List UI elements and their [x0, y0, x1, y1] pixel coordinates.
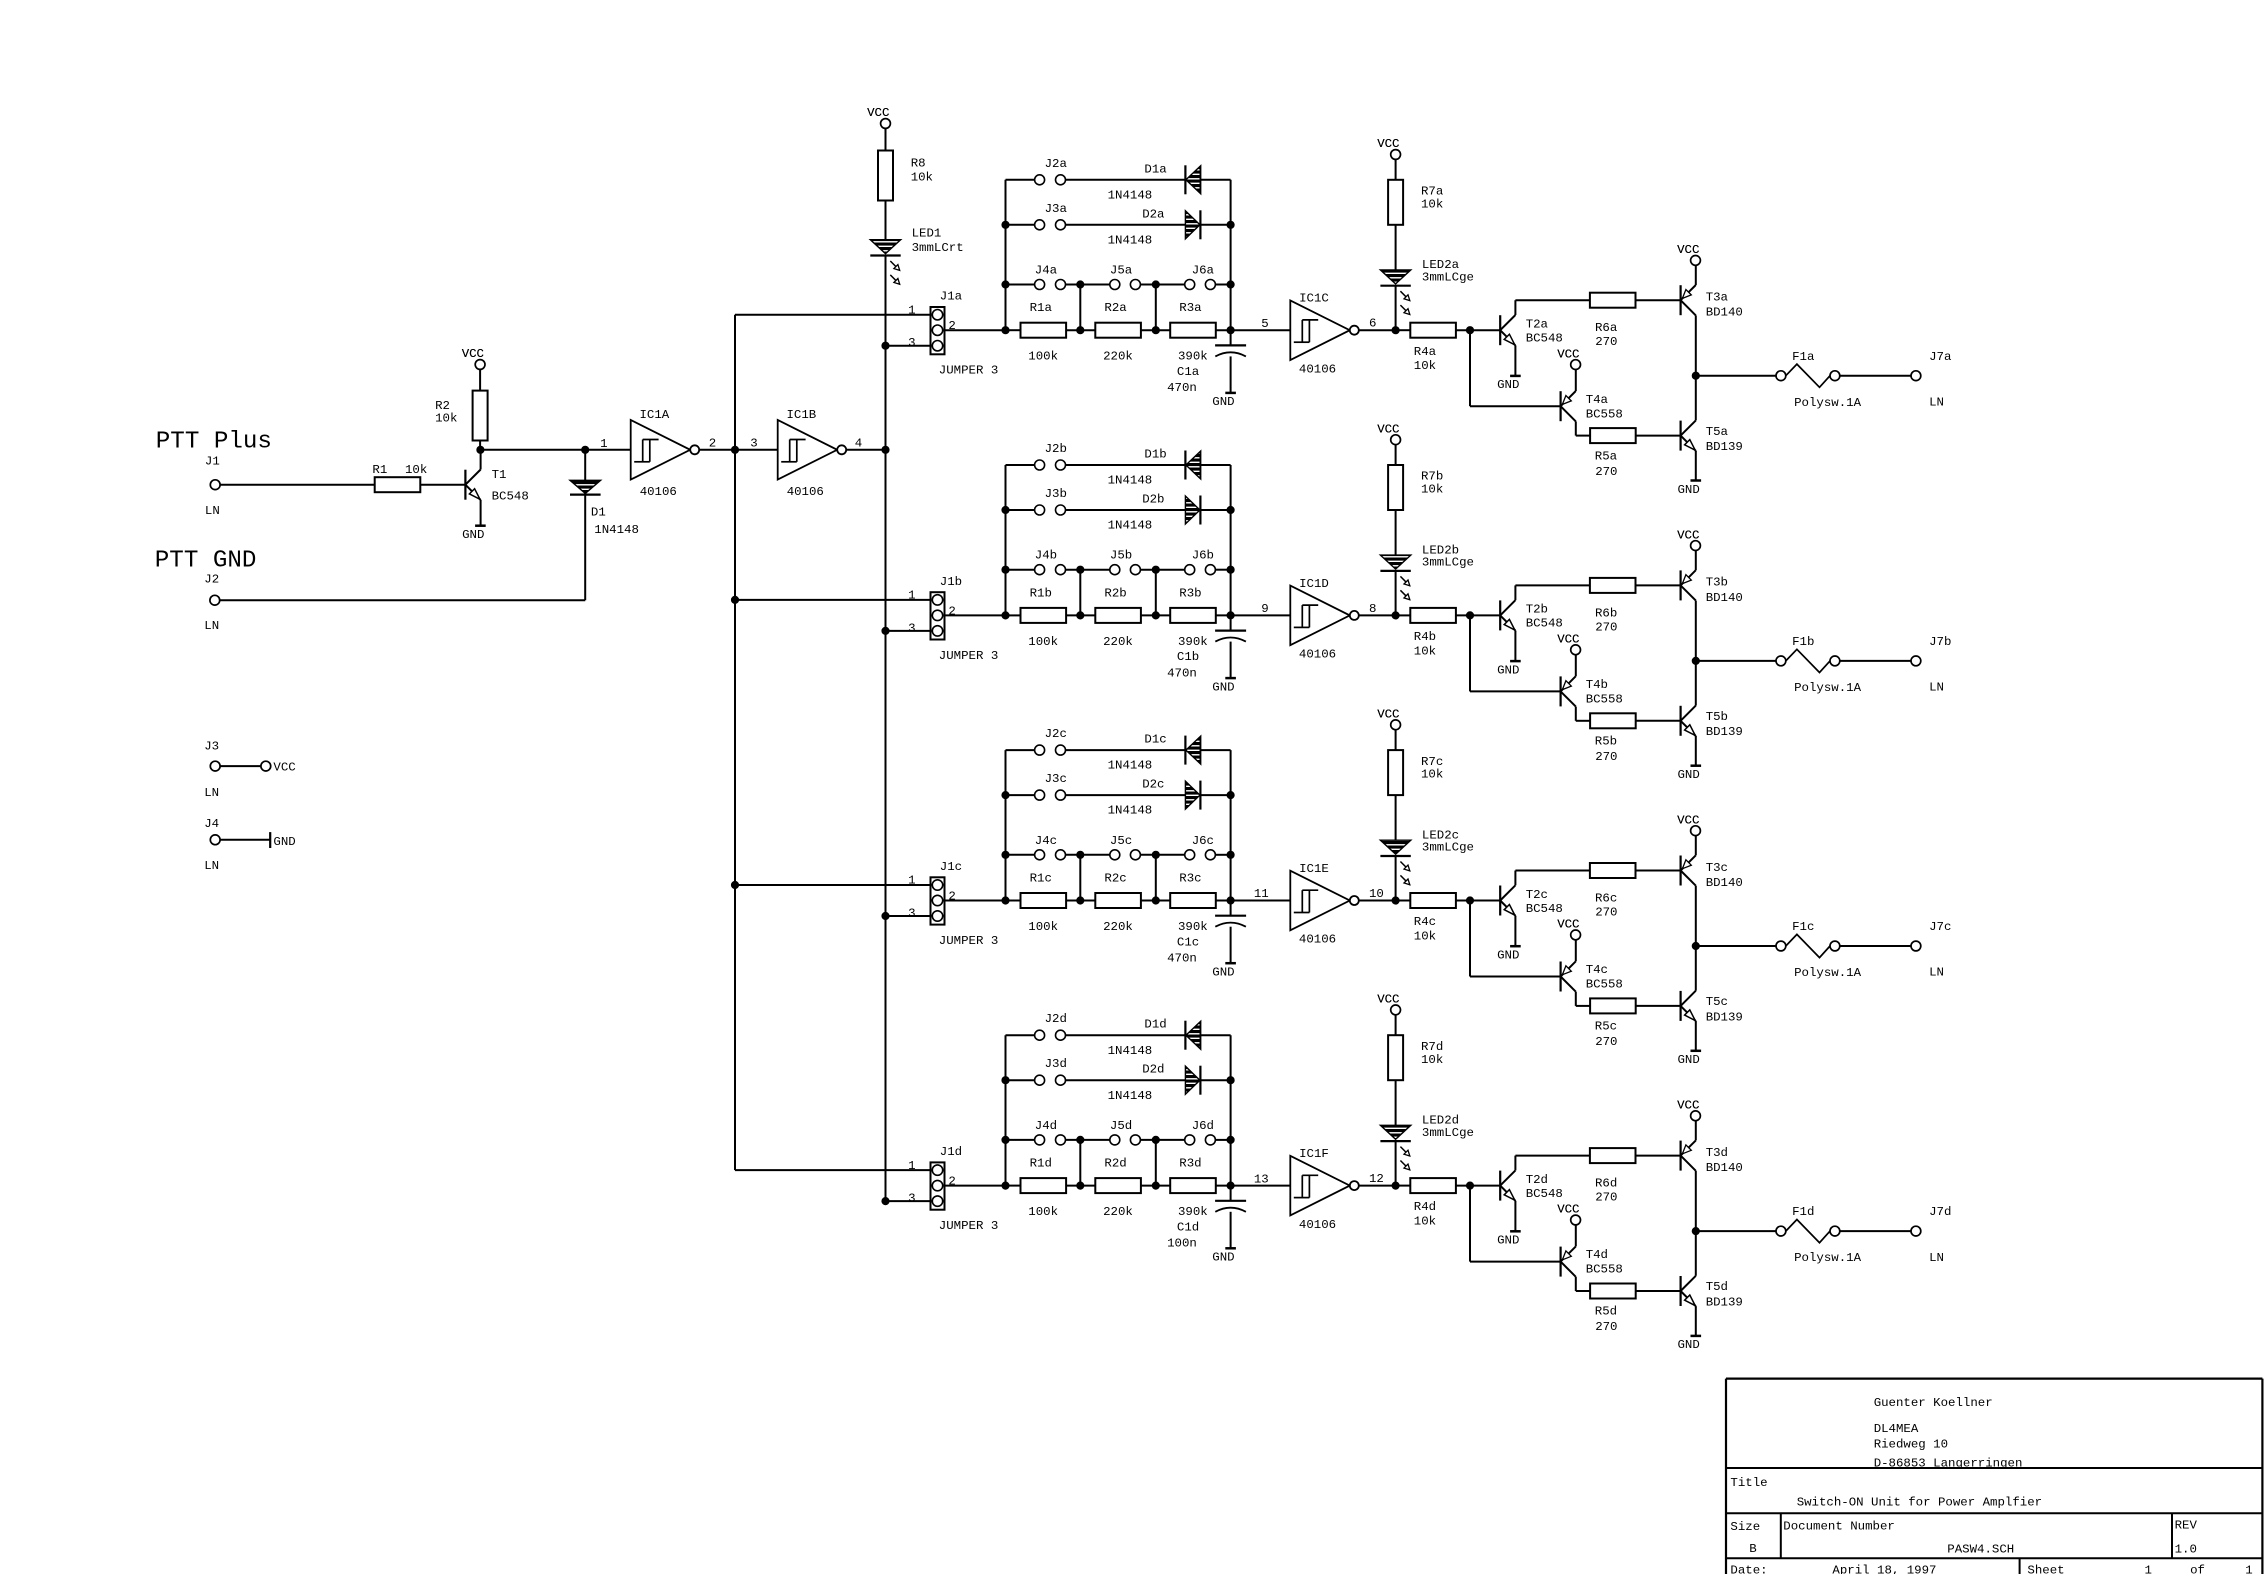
jumper J4a: [1006, 284, 1035, 286]
svg-text:D1d: D1d: [1144, 1018, 1166, 1032]
svg-text:R3b: R3b: [1179, 586, 1201, 600]
wire: [1695, 1021, 1697, 1051]
resistor R3b: [1170, 608, 1216, 623]
wire node 1: [480, 449, 631, 451]
wire: [1395, 1015, 1397, 1035]
jumper header J1b: [931, 592, 945, 639]
junction: [1077, 327, 1084, 334]
svg-text:J5c: J5c: [1110, 834, 1132, 848]
svg-text:B: B: [1749, 1542, 1756, 1556]
svg-text:10k: 10k: [1414, 1215, 1436, 1229]
svg-text:R6c: R6c: [1595, 892, 1617, 906]
junction: [1693, 1228, 1700, 1235]
svg-text:J6c: J6c: [1192, 834, 1214, 848]
svg-text:T2b: T2b: [1526, 603, 1548, 617]
connector J1: [210, 480, 220, 490]
jumper J3c: [1006, 794, 1035, 796]
jumper J3b: [1006, 509, 1035, 511]
svg-text:R7c: R7c: [1421, 755, 1443, 769]
transistor T2b: [1499, 600, 1501, 630]
capacitor C1d: [1215, 1200, 1246, 1202]
svg-text:1N4148: 1N4148: [594, 523, 639, 537]
svg-text:13: 13: [1254, 1172, 1269, 1186]
wire: [1635, 1155, 1680, 1157]
power VCC: [1391, 720, 1401, 730]
resistor R6b: [1590, 578, 1636, 593]
wire: [886, 345, 931, 347]
svg-text:J6a: J6a: [1192, 264, 1215, 278]
resistor R2: [473, 391, 488, 441]
jumper J4d: [1006, 1139, 1035, 1141]
svg-text:220k: 220k: [1103, 1205, 1133, 1219]
wire: [1066, 900, 1095, 902]
resistor R3c: [1170, 893, 1216, 908]
wire: [220, 599, 585, 601]
svg-text:40106: 40106: [787, 485, 824, 499]
wire: [1200, 224, 1230, 226]
wire: [1575, 940, 1577, 962]
junction: [1153, 897, 1160, 904]
svg-text:BD139: BD139: [1706, 725, 1743, 739]
svg-text:270: 270: [1595, 1320, 1617, 1334]
wire: [1140, 569, 1184, 571]
svg-text:F1c: F1c: [1792, 920, 1814, 934]
wire: [1470, 405, 1561, 407]
svg-text:R1b: R1b: [1030, 586, 1052, 600]
wire: [1005, 465, 1007, 615]
svg-text:100k: 100k: [1028, 1205, 1058, 1219]
svg-text:VCC: VCC: [1377, 993, 1399, 1007]
svg-text:J2: J2: [204, 573, 219, 587]
svg-text:J4c: J4c: [1035, 834, 1057, 848]
wire: [1079, 570, 1081, 616]
svg-text:GND: GND: [1497, 378, 1519, 392]
svg-text:BC558: BC558: [1586, 978, 1623, 992]
junction: [1077, 612, 1084, 619]
svg-text:R4d: R4d: [1414, 1200, 1436, 1214]
svg-text:BC558: BC558: [1586, 407, 1623, 421]
ground: [1691, 1050, 1702, 1053]
ground: [1510, 1230, 1521, 1233]
wire: [1216, 900, 1291, 902]
svg-text:BD140: BD140: [1706, 1161, 1743, 1175]
resistor R2d: [1095, 1178, 1141, 1193]
wire: [1575, 1225, 1577, 1247]
svg-text:C1b: C1b: [1177, 650, 1199, 664]
junction: [732, 882, 739, 889]
svg-text:GND: GND: [1678, 768, 1700, 782]
jumper J4c: [1006, 854, 1035, 856]
svg-text:3mmLCge: 3mmLCge: [1422, 270, 1474, 284]
svg-text:GND: GND: [1497, 663, 1519, 677]
junction: [477, 447, 484, 454]
resistor R6d: [1590, 1148, 1636, 1163]
svg-text:VCC: VCC: [1557, 1203, 1579, 1217]
power VCC: [261, 761, 271, 771]
wire: [1215, 854, 1230, 856]
ground: [1691, 479, 1702, 482]
svg-text:220k: 220k: [1103, 350, 1133, 364]
resistor R1b: [1021, 608, 1067, 623]
wire: [1455, 900, 1500, 902]
fuse F1b: [1776, 656, 1786, 666]
junction: [1077, 1137, 1084, 1144]
svg-text:Sheet: Sheet: [2027, 1564, 2064, 1574]
svg-text:100k: 100k: [1028, 350, 1058, 364]
wire: [1695, 315, 1697, 375]
wire: [1395, 159, 1397, 179]
svg-text:VCC: VCC: [1677, 528, 1699, 542]
svg-text:BC548: BC548: [1526, 617, 1563, 631]
svg-text:REV: REV: [2175, 1519, 2198, 1533]
wire: [1155, 855, 1157, 901]
wire: [1635, 1290, 1680, 1292]
wire: [846, 449, 885, 451]
wire: [1395, 286, 1397, 331]
wire: [1140, 284, 1184, 286]
svg-text:40106: 40106: [640, 485, 677, 499]
wire: [886, 1200, 931, 1202]
wire: [1215, 1139, 1230, 1141]
wire: [1635, 435, 1680, 437]
svg-text:220k: 220k: [1103, 920, 1133, 934]
wire: [1066, 224, 1186, 226]
svg-text:J7c: J7c: [1929, 920, 1951, 934]
svg-text:10k: 10k: [1414, 929, 1436, 943]
junction: [582, 447, 589, 454]
wire: [1635, 299, 1680, 301]
wire: [1066, 1079, 1186, 1081]
wire: [1576, 435, 1591, 437]
junction: [1077, 566, 1084, 573]
wire: [1455, 614, 1500, 616]
wire: [1230, 180, 1232, 346]
resistor R7a: [1388, 180, 1403, 225]
svg-text:J2c: J2c: [1045, 727, 1067, 741]
wire: [1066, 569, 1110, 571]
wire: [1006, 614, 1021, 616]
wire: [480, 450, 482, 470]
wire: [220, 839, 270, 841]
jumper J5c: [1110, 850, 1120, 860]
svg-text:J4b: J4b: [1035, 549, 1057, 563]
jumper J5b: [1110, 565, 1120, 575]
svg-text:Riedweg 10: Riedweg 10: [1874, 1437, 1948, 1451]
svg-text:1: 1: [2145, 1564, 2152, 1574]
svg-text:3mmLCge: 3mmLCge: [1422, 841, 1474, 855]
svg-text:1.0: 1.0: [2175, 1542, 2197, 1556]
svg-text:R4b: R4b: [1414, 630, 1436, 644]
junction: [1693, 943, 1700, 950]
inverter IC1E: [1290, 871, 1350, 931]
svg-text:Polysw.1A: Polysw.1A: [1794, 966, 1861, 980]
wire: [479, 369, 481, 390]
svg-text:Size: Size: [1730, 1520, 1760, 1534]
wire: [1514, 871, 1516, 886]
junction: [1467, 1182, 1474, 1189]
junction: [1227, 1077, 1234, 1084]
svg-text:BC548: BC548: [1526, 1187, 1563, 1201]
jumper J6d: [1185, 1135, 1195, 1145]
wire: [1695, 946, 1697, 991]
junction: [1002, 1077, 1009, 1084]
resistor R2c: [1095, 893, 1141, 908]
svg-text:IC1D: IC1D: [1299, 577, 1329, 591]
svg-text:10k: 10k: [1421, 1053, 1443, 1067]
resistor R5c: [1590, 998, 1636, 1013]
svg-text:J4: J4: [204, 817, 219, 831]
diode D1d: [1184, 1021, 1186, 1050]
svg-text:of: of: [2190, 1564, 2205, 1574]
LED LED1: [870, 240, 900, 254]
svg-text:Document Number: Document Number: [1783, 1519, 1895, 1533]
wire: [1216, 329, 1291, 331]
ground: [1225, 1247, 1236, 1250]
svg-text:12: 12: [1369, 1172, 1384, 1186]
wire: [885, 128, 887, 150]
connector J7b: [1911, 656, 1921, 666]
svg-text:VCC: VCC: [1377, 708, 1399, 722]
junction: [1392, 327, 1399, 334]
svg-text:11: 11: [1254, 887, 1269, 901]
wire bus2: [885, 256, 887, 1202]
svg-text:3: 3: [908, 621, 915, 635]
connector J2: [210, 595, 220, 605]
power VCC: [881, 119, 891, 129]
svg-text:T3a: T3a: [1706, 291, 1729, 305]
junction: [882, 342, 889, 349]
jumper J2b: [1006, 464, 1035, 466]
svg-text:JUMPER 3: JUMPER 3: [939, 364, 999, 378]
svg-text:J7b: J7b: [1929, 635, 1951, 649]
wire: [1395, 445, 1397, 465]
power VCC: [1391, 1005, 1401, 1015]
svg-text:F1d: F1d: [1792, 1205, 1814, 1219]
power VCC: [1571, 360, 1581, 370]
ground: [269, 832, 271, 848]
connector J7d: [1911, 1226, 1921, 1236]
svg-text:T3b: T3b: [1706, 576, 1728, 590]
transistor T4b: [1559, 676, 1561, 706]
svg-text:1: 1: [908, 1159, 915, 1173]
wire: [1201, 179, 1231, 181]
svg-text:D2c: D2c: [1142, 778, 1164, 792]
jumper J6c: [1185, 850, 1195, 860]
transistor T2c: [1499, 886, 1501, 916]
wire: [886, 915, 931, 917]
svg-text:BC548: BC548: [1526, 332, 1563, 346]
svg-text:J2d: J2d: [1045, 1012, 1067, 1026]
svg-text:DL4MEA: DL4MEA: [1874, 1422, 1919, 1436]
wire: [1066, 1139, 1110, 1141]
svg-text:JUMPER 3: JUMPER 3: [939, 934, 999, 948]
svg-text:Date:: Date:: [1730, 1564, 1767, 1574]
jumper J2a: [1006, 179, 1035, 181]
junction: [1077, 897, 1084, 904]
svg-text:R5d: R5d: [1595, 1305, 1617, 1319]
svg-text:J6b: J6b: [1192, 549, 1214, 563]
svg-text:PTT Plus: PTT Plus: [156, 429, 272, 456]
svg-text:100k: 100k: [1028, 920, 1058, 934]
svg-text:Title: Title: [1730, 1476, 1767, 1490]
jumper J6b: [1185, 565, 1195, 575]
LED LED2c: [1380, 840, 1410, 854]
wire: [1230, 1035, 1232, 1201]
wire: [420, 484, 465, 486]
wire: [1230, 927, 1232, 964]
svg-text:R2c: R2c: [1104, 872, 1126, 886]
wire: [1395, 225, 1397, 270]
wire bus1: [734, 315, 736, 1170]
svg-text:J4d: J4d: [1035, 1119, 1057, 1133]
inverter IC1A: [631, 420, 691, 480]
wire: [1359, 1185, 1396, 1187]
svg-text:J7d: J7d: [1929, 1205, 1951, 1219]
svg-text:BD139: BD139: [1706, 1295, 1743, 1309]
svg-text:F1a: F1a: [1792, 350, 1815, 364]
wire: [1141, 1185, 1170, 1187]
svg-text:D1b: D1b: [1144, 448, 1166, 462]
svg-text:1N4148: 1N4148: [1108, 188, 1153, 202]
svg-text:VCC: VCC: [867, 106, 889, 120]
svg-text:3mmLCrt: 3mmLCrt: [912, 241, 964, 255]
svg-text:J1a: J1a: [940, 290, 963, 304]
wire: [1395, 510, 1397, 555]
wire: [1696, 660, 1776, 662]
svg-text:VCC: VCC: [1677, 813, 1699, 827]
svg-text:J1d: J1d: [940, 1145, 962, 1159]
junction: [732, 447, 739, 454]
wire: [1005, 750, 1007, 900]
resistor R4a: [1410, 323, 1456, 338]
wire: [1840, 660, 1911, 662]
svg-text:T3c: T3c: [1706, 861, 1728, 875]
svg-text:BC548: BC548: [1526, 902, 1563, 916]
jumper J2d: [1006, 1034, 1035, 1036]
wire: [735, 1169, 931, 1171]
svg-text:J2b: J2b: [1045, 442, 1067, 456]
wire: [1066, 1185, 1095, 1187]
svg-text:10k: 10k: [1414, 644, 1436, 658]
wire: [1395, 730, 1397, 750]
svg-text:100n: 100n: [1167, 1237, 1197, 1251]
wire: [699, 449, 778, 451]
svg-text:VCC: VCC: [273, 761, 295, 775]
wire: [1695, 736, 1697, 766]
wire: [1575, 370, 1577, 392]
wire: [735, 599, 931, 601]
wire: [945, 900, 1006, 902]
svg-text:BD139: BD139: [1706, 440, 1743, 454]
wire: [1469, 1186, 1471, 1262]
junction: [1467, 327, 1474, 334]
svg-text:T4a: T4a: [1586, 393, 1609, 407]
svg-text:10k: 10k: [1421, 197, 1443, 211]
junction: [1693, 372, 1700, 379]
wire: [1200, 1079, 1230, 1081]
svg-text:J5d: J5d: [1110, 1119, 1132, 1133]
resistor R6a: [1590, 293, 1636, 308]
svg-text:LN: LN: [204, 859, 219, 873]
wire: [735, 884, 931, 886]
jumper J4b: [1006, 569, 1035, 571]
fuse F1d: [1776, 1226, 1786, 1236]
wire: [1230, 1212, 1232, 1249]
svg-text:5: 5: [1261, 317, 1268, 331]
wire: [1395, 571, 1397, 616]
svg-text:VCC: VCC: [1677, 243, 1699, 257]
junction: [1227, 507, 1234, 514]
ground: [1225, 392, 1236, 395]
wire: [1066, 284, 1110, 286]
wire: [1575, 707, 1577, 721]
ground: [1510, 945, 1521, 948]
svg-text:GND: GND: [1212, 395, 1234, 409]
jumper header J1a: [931, 307, 945, 354]
capacitor C1c: [1215, 915, 1246, 917]
ground: [1691, 1335, 1702, 1338]
transistor T5c: [1679, 991, 1681, 1021]
transistor T4c: [1559, 962, 1561, 992]
junction: [1227, 222, 1234, 229]
wire: [1359, 329, 1396, 331]
wire: [1514, 585, 1516, 600]
wire: [1066, 854, 1110, 856]
svg-text:GND: GND: [1212, 680, 1234, 694]
svg-text:D2b: D2b: [1142, 493, 1164, 507]
wire: [1155, 570, 1157, 616]
svg-text:R3c: R3c: [1179, 872, 1201, 886]
wire: [1695, 836, 1697, 856]
wire: [885, 201, 887, 240]
transistor T1: [464, 470, 466, 500]
svg-text:R1: R1: [372, 463, 387, 477]
svg-text:PASW4.SCH: PASW4.SCH: [1947, 1542, 2014, 1556]
wire: [1695, 376, 1697, 421]
title block frame: [1726, 1377, 2262, 1379]
svg-text:R2a: R2a: [1104, 301, 1127, 315]
jumper header J1d: [931, 1162, 945, 1209]
wire: [1635, 720, 1680, 722]
inverter IC1C: [1290, 300, 1350, 360]
svg-text:GND: GND: [1678, 1338, 1700, 1352]
svg-text:J5a: J5a: [1110, 264, 1133, 278]
diode D2b: [1185, 496, 1200, 524]
jumper J3a: [1006, 224, 1035, 226]
connector J3: [210, 761, 220, 771]
junction: [1392, 612, 1399, 619]
fuse F1c: [1776, 941, 1786, 951]
wire: [1079, 285, 1081, 331]
svg-text:JUMPER 3: JUMPER 3: [939, 1219, 999, 1233]
wire: [1216, 614, 1291, 616]
resistor R1: [375, 477, 421, 492]
svg-text:470n: 470n: [1167, 952, 1197, 966]
power VCC: [1691, 1111, 1701, 1121]
wire: [1216, 1185, 1291, 1187]
svg-text:390k: 390k: [1178, 350, 1208, 364]
svg-text:GND: GND: [462, 528, 484, 542]
power VCC: [475, 360, 485, 370]
wire: [1635, 584, 1680, 586]
resistor R1a: [1021, 323, 1067, 338]
wire: [1201, 1034, 1231, 1036]
junction: [1002, 222, 1009, 229]
power VCC: [1691, 826, 1701, 836]
resistor R7d: [1388, 1035, 1403, 1080]
diode D1b: [1184, 451, 1186, 480]
power VCC: [1571, 1215, 1581, 1225]
